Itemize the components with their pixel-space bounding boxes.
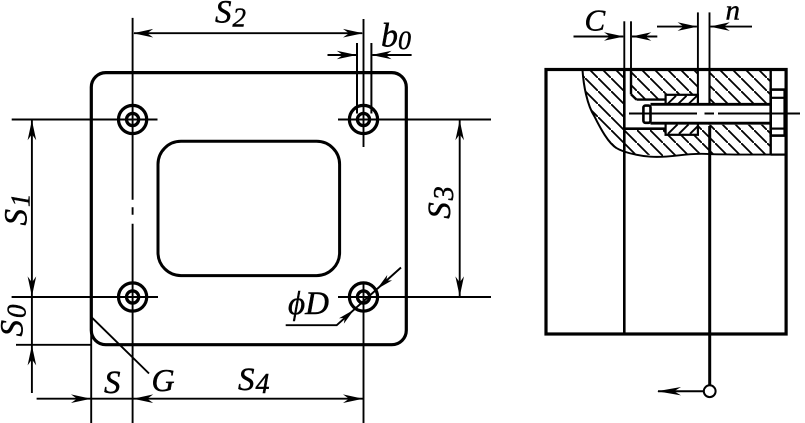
chamfer from B to step	[631, 94, 637, 99]
C arrow pointing right	[604, 32, 624, 41]
dimension n left segment	[657, 26, 697, 28]
nut lower hatch lines	[668, 124, 698, 133]
counterbore step bottom	[624, 127, 665, 130]
n slot right line	[708, 70, 710, 104]
svg-text:ϕD: ϕD	[288, 286, 329, 322]
svg-text:S1: S1	[0, 194, 36, 226]
S0 arrow up at 345 from below	[28, 345, 37, 365]
nut upper rect	[666, 95, 698, 105]
dimension S2 line	[134, 32, 362, 34]
hole bottom-right inner	[357, 291, 369, 303]
head recess bottom	[771, 154, 786, 156]
S2 arrow left	[133, 29, 153, 38]
dimension S1 line	[31, 120, 33, 393]
centerline horizontal bottom row right part	[338, 296, 491, 298]
rod below body	[708, 334, 711, 385]
hatch left block R1	[583, 70, 625, 153]
dimension C right segment	[632, 36, 657, 38]
phiD leader polyline	[286, 268, 401, 326]
bolt head facet top	[771, 97, 785, 99]
hole top-right inner	[357, 113, 369, 125]
dimension S S4 line	[37, 398, 364, 400]
arrow tip right at plate edge 91	[71, 394, 91, 403]
hole bottom-left outer	[119, 283, 147, 311]
arrow tip left at centerline 132.6	[133, 394, 153, 403]
pull arrow line	[658, 390, 704, 392]
hatch block R4 above shaft right	[710, 70, 771, 104]
nut lower rect	[666, 123, 698, 135]
slot left extension above	[623, 21, 625, 70]
bolt head outline	[771, 90, 785, 136]
plate left edge extension to bottom	[90, 333, 92, 423]
n slot left extension above	[697, 12, 699, 70]
phiD arrow lower-left pointing up-right	[339, 310, 354, 324]
slot right line B	[630, 70, 632, 94]
hole top-left outer	[119, 105, 147, 133]
svg-text:S: S	[104, 365, 121, 401]
S1 arrow down at 297	[28, 276, 37, 296]
head recess left edge	[770, 70, 772, 155]
central cutout	[158, 141, 340, 275]
svg-text:S2: S2	[215, 0, 246, 33]
bolt shaft top	[651, 103, 771, 106]
hole top-left inner	[127, 113, 139, 125]
nut upper hatch lines	[668, 96, 697, 104]
b0 arrow pointing right	[337, 51, 357, 60]
dimension C left segment	[574, 36, 624, 38]
arrow tip right at 363.5	[343, 394, 363, 403]
S3 arrow up	[455, 120, 464, 140]
slot left line A	[623, 70, 626, 334]
hatch block R7 below shaft right	[698, 125, 771, 155]
S3 arrow down	[455, 276, 464, 296]
phiD arrow upper-right pointing down-left	[377, 275, 392, 289]
hatch block R6 below nut	[666, 135, 698, 157]
S2 arrow right	[343, 29, 363, 38]
dimension S3 line	[459, 120, 461, 296]
n arrow pointing left	[710, 22, 730, 31]
body outline	[546, 70, 786, 335]
centerline horizontal bottom row left part	[12, 296, 158, 298]
G leader line	[92, 317, 150, 373]
n slot left line	[697, 70, 699, 95]
dimension b0 left segment	[328, 54, 357, 56]
bolt tip cap	[643, 106, 650, 123]
hatch block R2 above step	[631, 70, 666, 100]
plate outline	[91, 73, 406, 345]
hole bottom-right outer	[349, 283, 377, 311]
hatch left boundary S-curve	[583, 70, 617, 148]
slot right extension above	[630, 21, 632, 70]
dimension b0 right segment	[372, 54, 411, 56]
C arrow pointing left	[631, 32, 651, 41]
hatch block R3 above nut	[666, 70, 698, 95]
bolt shaft bottom	[651, 122, 771, 125]
b0 arrow pointing left	[372, 51, 392, 60]
bolt head facet bottom	[771, 128, 785, 130]
svg-text:G: G	[152, 362, 175, 398]
rod line	[708, 126, 711, 334]
dimension n right segment	[711, 26, 753, 28]
svg-text:C: C	[585, 3, 606, 38]
pull arrowhead	[657, 387, 681, 395]
hatch bottom wavy line	[617, 148, 786, 157]
hole bottom-left inner	[127, 291, 139, 303]
b0 slot line right	[370, 43, 372, 114]
n slot right extension above	[709, 12, 711, 70]
bolt axis centerline	[629, 113, 800, 115]
b0 slot line left	[356, 43, 358, 114]
S1 arrow up	[28, 120, 37, 140]
hatch block R5 below step	[624, 129, 665, 157]
counterbore step top	[637, 98, 666, 100]
centerline vertical left column	[132, 18, 134, 423]
n arrow pointing right	[678, 22, 698, 31]
centerline vertical right column	[363, 19, 365, 423]
centerline horizontal top row left part	[12, 119, 158, 121]
svg-text:n: n	[726, 0, 741, 27]
svg-text:S0: S0	[0, 304, 32, 337]
rod end circle	[704, 385, 716, 397]
bottom edge extension line left	[16, 344, 91, 346]
centerline horizontal top row right part	[338, 119, 491, 121]
hole top-right outer	[349, 105, 377, 133]
